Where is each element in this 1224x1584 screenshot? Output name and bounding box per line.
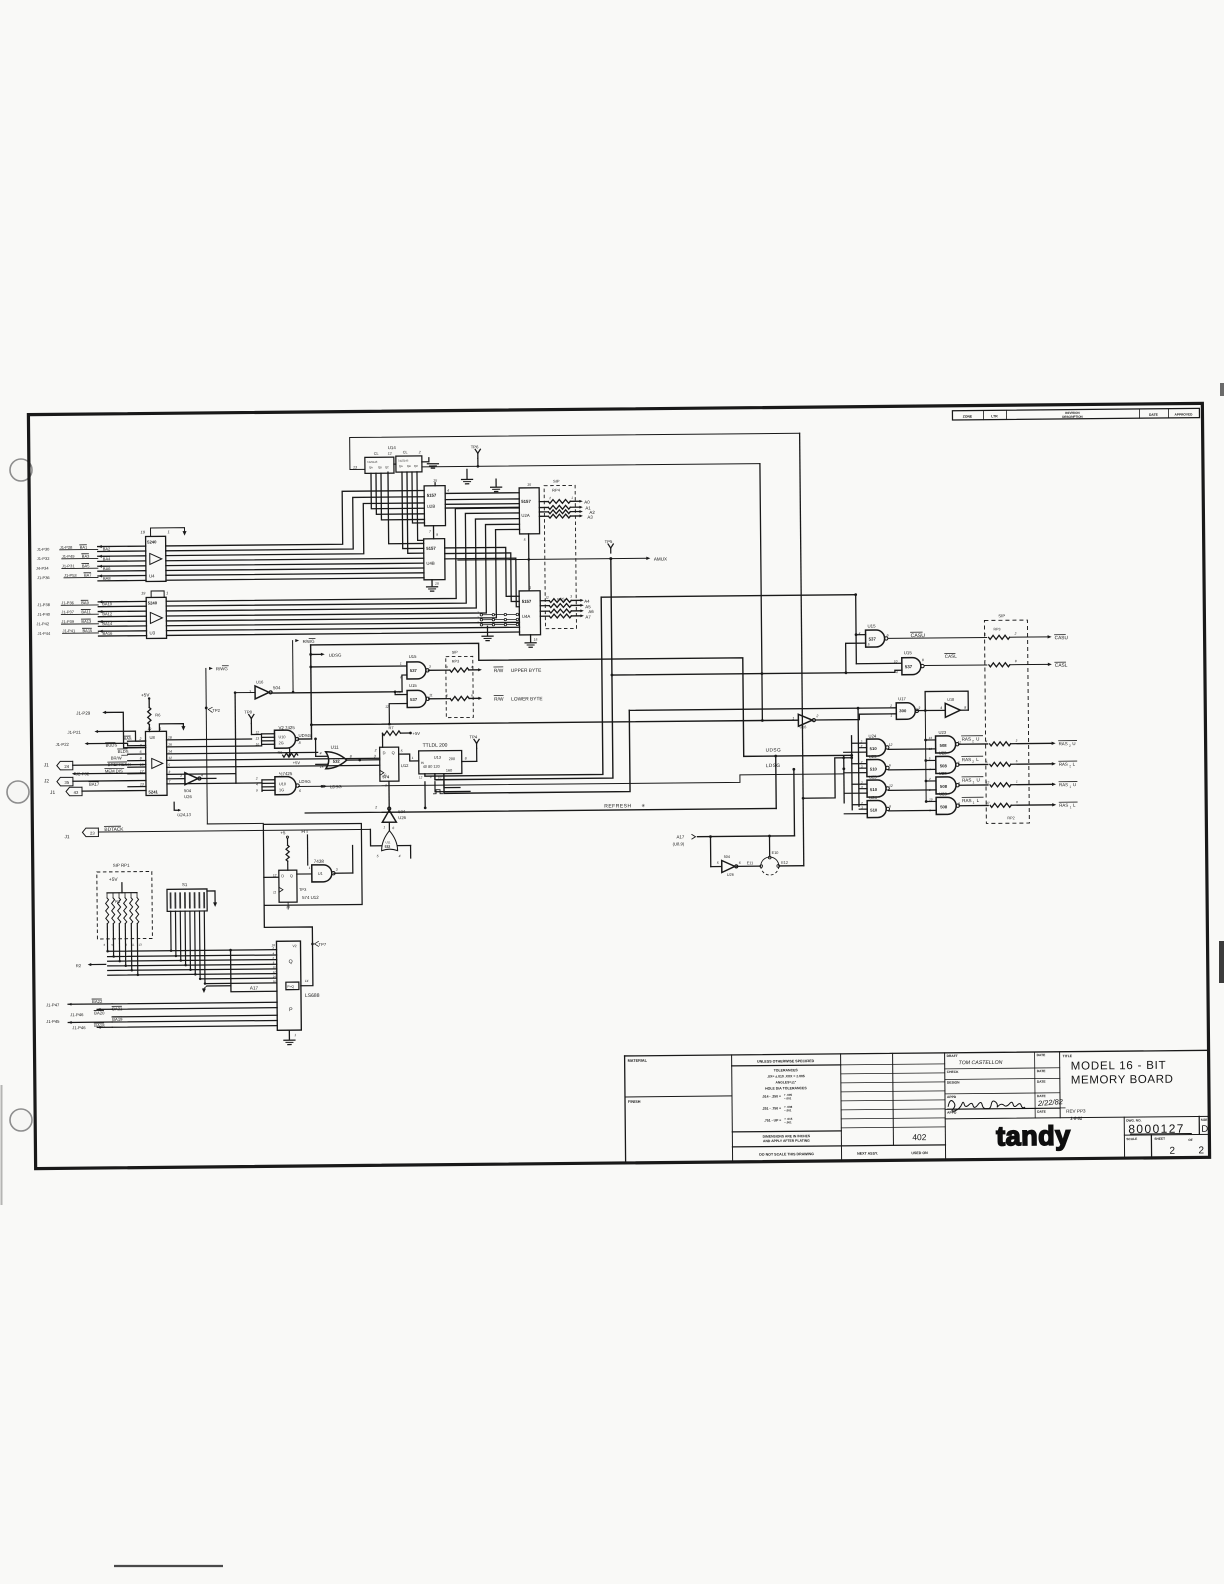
svg-text:J1-P46: J1-P46 <box>72 1025 86 1030</box>
svg-text:QD: QD <box>414 464 418 468</box>
svg-text:J1-P53: J1-P53 <box>64 573 77 578</box>
svg-text:RAS: RAS <box>1059 782 1068 787</box>
RAS output row4 <box>959 804 988 806</box>
svg-text:6: 6 <box>140 750 142 754</box>
svg-text:5157: 5157 <box>521 499 531 504</box>
U22 P input wires <box>112 1002 277 1004</box>
svg-text:E10: E10 <box>772 851 779 855</box>
S1 common arrow <box>207 891 215 902</box>
svg-text:+5V: +5V <box>412 731 420 736</box>
svg-text:AMUX: AMUX <box>654 557 667 562</box>
svg-text:8: 8 <box>964 706 966 710</box>
U4B outputs to U4A <box>445 547 519 597</box>
TP6 test point <box>477 453 479 458</box>
svg-text:E12: E12 <box>781 861 788 865</box>
svg-text:TP5: TP5 <box>605 539 613 544</box>
svg-text:J1-P46: J1-P46 <box>70 1012 84 1017</box>
svg-text:U13: U13 <box>434 755 442 760</box>
svg-text:✳: ✳ <box>641 803 645 808</box>
svg-text:2: 2 <box>1069 764 1071 768</box>
svg-text:4: 4 <box>447 489 449 493</box>
ground at U14 <box>422 461 429 463</box>
U4 input wires <box>98 545 146 547</box>
svg-text:A3: A3 <box>587 515 593 520</box>
svg-text:2G: 2G <box>279 741 284 745</box>
svg-text:P: P <box>289 1007 293 1013</box>
svg-text:2: 2 <box>1169 1146 1175 1157</box>
svg-text:U15: U15 <box>867 624 876 629</box>
svg-text:1: 1 <box>385 783 387 787</box>
svg-text:USED ON: USED ON <box>911 1151 928 1155</box>
svg-text:5: 5 <box>446 694 448 698</box>
svg-text:LOWER BYTE: LOWER BYTE <box>511 696 543 702</box>
wire y675 CAS feed <box>612 670 902 675</box>
svg-text:510: 510 <box>870 807 878 812</box>
svg-text:U1: U1 <box>318 872 323 876</box>
U8 left pin stubs <box>128 740 146 742</box>
svg-text:J1: J1 <box>64 834 69 840</box>
R/WG vertical <box>209 667 213 670</box>
svg-text:4: 4 <box>986 739 988 743</box>
svg-text:6: 6 <box>392 826 394 830</box>
svg-text:BA22: BA22 <box>92 999 103 1004</box>
svg-text:12: 12 <box>168 756 172 760</box>
svg-text:UPPER BYTE: UPPER BYTE <box>511 668 541 674</box>
svg-text:10: 10 <box>929 797 933 801</box>
svg-text:2: 2 <box>928 777 931 781</box>
ground U4A <box>530 635 532 642</box>
svg-text:U: U <box>976 737 979 742</box>
svg-text:AND APPLY AFTER PLATING: AND APPLY AFTER PLATING <box>763 1139 810 1143</box>
buffer U3 <box>146 597 166 638</box>
svg-text:SIP: SIP <box>998 613 1005 618</box>
svg-text:½7425: ½7425 <box>279 771 293 776</box>
svg-text:L: L <box>976 757 979 762</box>
svg-text:U25: U25 <box>869 775 877 780</box>
svg-text:5: 5 <box>717 861 719 865</box>
svg-text:ZONE: ZONE <box>963 415 973 419</box>
inverter U16a 504 <box>255 686 269 699</box>
svg-text:Q: Q <box>392 750 395 755</box>
inverter U26a 504 <box>167 778 185 780</box>
svg-text:TP3: TP3 <box>299 887 307 892</box>
buffer U8 <box>145 731 167 795</box>
svg-text:6: 6 <box>299 789 301 793</box>
svg-text:3: 3 <box>570 594 572 598</box>
svg-text:12: 12 <box>545 596 549 600</box>
svg-text:MATERIAL: MATERIAL <box>628 1059 648 1063</box>
svg-text:.751 - UP =: .751 - UP = <box>764 1118 781 1122</box>
svg-text:SIP: SIP <box>553 479 560 484</box>
svg-text:QB: QB <box>407 464 411 468</box>
svg-text:5: 5 <box>401 749 403 753</box>
svg-text:537: 537 <box>905 664 913 669</box>
svg-text:.XX= ±.010 .XXX = ±.005: .XX= ±.010 .XXX = ±.005 <box>767 1074 805 1078</box>
svg-text:5: 5 <box>524 538 526 542</box>
svg-text:537: 537 <box>410 697 418 702</box>
svg-text:1: 1 <box>1070 805 1072 809</box>
svg-text:V2: V2 <box>293 944 297 948</box>
svg-text:J1-P36: J1-P36 <box>61 600 74 605</box>
U17 input wire <box>629 708 896 711</box>
svg-text:11: 11 <box>958 740 962 744</box>
svg-text:2: 2 <box>255 776 258 780</box>
svg-text:J1-P49: J1-P49 <box>62 554 75 559</box>
svg-text:D: D <box>281 874 284 878</box>
svg-text:J1-P36: J1-P36 <box>37 575 50 580</box>
svg-text:J1-P32: J1-P32 <box>37 556 50 561</box>
U14 extra drops <box>412 472 424 523</box>
right edge scan mark <box>1219 941 1224 983</box>
svg-text:CASU: CASU <box>1055 635 1069 641</box>
svg-text:U26: U26 <box>184 794 192 799</box>
svg-text:2: 2 <box>860 760 863 764</box>
svg-text:6: 6 <box>889 804 891 808</box>
flipflop U12b 574 <box>279 870 297 902</box>
RP4 resistors <box>548 499 570 503</box>
R/W lower byte output <box>429 698 450 700</box>
U3 enable loop <box>151 591 164 598</box>
svg-text:2: 2 <box>972 739 974 743</box>
svg-text:BA18: BA18 <box>94 1023 105 1028</box>
svg-text:tandy: tandy <box>996 1121 1071 1152</box>
svg-text:ANGLES=±1°: ANGLES=±1° <box>776 1080 797 1084</box>
dwg no box <box>1123 1117 1125 1158</box>
svg-text:J1: J1 <box>44 762 49 768</box>
svg-text:SIP: SIP <box>452 651 459 655</box>
svg-text:BAS: BAS <box>123 736 131 741</box>
svg-text:UDSG: UDSG <box>766 747 782 753</box>
svg-text:BA20: BA20 <box>94 1010 105 1015</box>
svg-text:TTLDL 200: TTLDL 200 <box>423 743 448 749</box>
svg-text:5: 5 <box>868 643 870 647</box>
svg-text:1: 1 <box>972 780 974 784</box>
svg-text:2: 2 <box>548 496 551 500</box>
svg-text:BA19: BA19 <box>112 1017 123 1022</box>
buffer U4 <box>146 536 166 581</box>
svg-text:U23: U23 <box>938 730 946 735</box>
svg-text:12: 12 <box>419 775 423 779</box>
ground mid 2 <box>495 479 497 486</box>
svg-text:LDSG: LDSG <box>299 779 311 784</box>
svg-text:A0: A0 <box>584 500 590 505</box>
svg-text:P=Q: P=Q <box>287 985 294 989</box>
buffer U18 <box>945 703 960 717</box>
U12 Q to U13 wire <box>399 754 419 761</box>
svg-text:9: 9 <box>256 788 258 792</box>
wire U17 feed trunk <box>443 710 630 793</box>
svg-text:J1-P41: J1-P41 <box>62 628 75 633</box>
svg-text:2: 2 <box>1198 1145 1204 1156</box>
svg-text:6: 6 <box>739 861 741 865</box>
svg-text:R6: R6 <box>278 751 283 755</box>
pulse symbol <box>433 790 443 794</box>
svg-text:J2: J2 <box>44 778 49 784</box>
arbitration sub-circuit box <box>263 823 362 905</box>
svg-text:2: 2 <box>477 610 479 614</box>
svg-text:BA17: BA17 <box>89 782 100 787</box>
R/WG arrow 2 <box>295 639 299 642</box>
punch hole top <box>10 459 32 481</box>
LDSG arrow tap <box>323 785 327 788</box>
LDSG trunk wire <box>298 774 844 787</box>
svg-text:4: 4 <box>896 670 898 674</box>
U14 clock wire from line A <box>350 433 800 469</box>
svg-text:(U8,9): (U8,9) <box>673 841 685 846</box>
svg-text:5157: 5157 <box>426 546 436 551</box>
revision table <box>952 408 1199 420</box>
svg-text:U: U <box>976 778 979 783</box>
svg-text:L: L <box>1073 803 1076 808</box>
U3 rows into U4A <box>166 622 519 625</box>
E10 wire up <box>768 836 770 856</box>
ground U4B <box>431 580 433 586</box>
svg-text:12: 12 <box>255 730 259 734</box>
svg-text:1-8-82: 1-8-82 <box>1070 1116 1083 1121</box>
svg-text:508: 508 <box>940 804 948 809</box>
svg-text:U18: U18 <box>947 698 954 702</box>
U18 drop to U23 column <box>924 711 927 800</box>
wire 510 to 508 row1 <box>888 748 935 750</box>
flipflop U12 574 <box>380 747 399 781</box>
svg-text:QB: QB <box>378 465 382 469</box>
svg-text:14: 14 <box>305 979 309 983</box>
svg-text:8: 8 <box>299 741 301 745</box>
svg-text:13: 13 <box>138 943 142 947</box>
svg-text:DESCRIPTION: DESCRIPTION <box>1062 415 1083 419</box>
svg-text:160: 160 <box>446 769 452 773</box>
wire long line to U16b <box>311 720 798 725</box>
svg-text:A17: A17 <box>250 985 259 990</box>
svg-text:R6: R6 <box>155 712 161 717</box>
svg-text:5157: 5157 <box>522 599 532 604</box>
U22 output TP7 <box>264 905 313 986</box>
svg-text:300: 300 <box>899 708 907 713</box>
svg-text:7: 7 <box>168 780 170 784</box>
svg-text:1: 1 <box>400 662 402 666</box>
svg-text:1: 1 <box>1016 780 1018 784</box>
inverter U26c 504 <box>722 860 735 872</box>
svg-text:BA13: BA13 <box>81 619 92 624</box>
svg-text:504: 504 <box>724 855 730 859</box>
svg-text:J1-P22: J1-P22 <box>56 742 70 747</box>
svg-text:19: 19 <box>141 592 146 596</box>
svg-text:BA6: BA6 <box>103 566 111 571</box>
wire 510 to 508 row4 <box>889 809 936 811</box>
comparator U22 LS688 <box>276 941 301 1030</box>
punch hole bottom <box>10 1109 32 1131</box>
title block outline <box>625 1050 1209 1056</box>
U8 mid output wires <box>167 738 252 741</box>
svg-text:510: 510 <box>870 766 878 771</box>
svg-text:R2: R2 <box>76 963 82 968</box>
svg-text:43: 43 <box>74 790 79 795</box>
svg-text:8: 8 <box>350 755 352 759</box>
svg-text:15: 15 <box>527 483 531 487</box>
svg-text:LTR: LTR <box>991 414 998 418</box>
svg-text:U10: U10 <box>279 782 286 786</box>
ground E cluster <box>486 626 488 635</box>
svg-text:18: 18 <box>168 736 172 740</box>
svg-text:3: 3 <box>1016 739 1018 743</box>
resistor pack RP2/RP3 tall dashed box <box>984 620 1029 823</box>
svg-text:J1-P29: J1-P29 <box>76 711 91 716</box>
svg-text:UNLESS OTHERWISE SPECIFIED: UNLESS OTHERWISE SPECIFIED <box>757 1059 815 1064</box>
svg-text:U4B: U4B <box>426 561 435 566</box>
svg-text:DATE: DATE <box>1037 1069 1047 1073</box>
svg-text:A4: A4 <box>584 599 590 604</box>
mux U4B <box>424 539 445 580</box>
svg-text:BA5: BA5 <box>82 563 90 568</box>
wire 510 to 508 row3 <box>889 789 936 791</box>
svg-text:504: 504 <box>184 788 192 793</box>
svg-text:R/W: R/W <box>494 668 504 674</box>
svg-text:U23: U23 <box>939 750 947 755</box>
svg-text:REFRESH: REFRESH <box>604 803 631 809</box>
svg-text:BR/W: BR/W <box>111 755 122 760</box>
svg-text:J1-P45: J1-P45 <box>46 1019 60 1024</box>
svg-text:Q: Q <box>289 959 293 965</box>
svg-text:RAS: RAS <box>962 798 972 803</box>
svg-text:5157: 5157 <box>427 493 437 498</box>
svg-text:200: 200 <box>449 757 455 761</box>
svg-text:DATE: DATE <box>1149 413 1159 417</box>
svg-text:U15: U15 <box>409 683 417 688</box>
E12 wire to line A drop <box>780 865 804 867</box>
svg-text:Q: Q <box>290 874 293 878</box>
TP5 test point <box>610 548 612 553</box>
svg-text:LDSG: LDSG <box>330 784 342 789</box>
wire line B <box>422 464 760 467</box>
U14 drops to U4B <box>388 472 424 544</box>
svg-text:CL: CL <box>374 452 379 456</box>
svg-text:HOLE DIA TOLERANCES: HOLE DIA TOLERANCES <box>765 1086 807 1090</box>
svg-text:3: 3 <box>103 943 105 947</box>
svg-text:U2B: U2B <box>427 504 436 509</box>
svg-text:+5V: +5V <box>293 760 301 765</box>
U3 label tier wires <box>61 604 98 606</box>
svg-text:508: 508 <box>940 763 948 768</box>
svg-text:OF: OF <box>1188 1138 1193 1142</box>
wire AMUX feed trunk <box>433 559 613 780</box>
svg-text:L: L <box>977 798 980 803</box>
svg-text:U2A: U2A <box>521 513 530 518</box>
mux U4A <box>519 591 540 635</box>
svg-text:RAS: RAS <box>962 757 972 762</box>
svg-text:RP3: RP3 <box>993 627 1000 631</box>
U15b feeds <box>856 662 901 664</box>
svg-text:IN: IN <box>421 761 424 765</box>
svg-text:40 80 120: 40 80 120 <box>423 765 440 769</box>
svg-text:APPD: APPD <box>947 1095 957 1099</box>
svg-text:U10: U10 <box>278 735 285 739</box>
svg-text:U26: U26 <box>398 815 406 820</box>
svg-text:6: 6 <box>471 693 473 697</box>
UDSG arrow upper <box>321 653 325 656</box>
svg-text:1: 1 <box>571 496 573 500</box>
svg-text:.014 - .250 =: .014 - .250 = <box>762 1094 781 1098</box>
svg-text:SIZE: SIZE <box>1201 1118 1208 1122</box>
svg-text:J1-P28: J1-P28 <box>60 545 73 550</box>
svg-text:RP2: RP2 <box>1007 816 1014 820</box>
svg-text:FINISH: FINISH <box>628 1100 641 1104</box>
svg-text:12: 12 <box>388 452 392 456</box>
svg-text:510: 510 <box>870 746 878 751</box>
punch hole middle <box>7 781 29 803</box>
svg-text:3: 3 <box>958 781 960 785</box>
title block next assy / used on columns <box>892 1053 895 1145</box>
wire U16b output to U17 <box>815 714 896 720</box>
svg-text:UDSG: UDSG <box>329 653 342 658</box>
svg-text:5: 5 <box>986 760 988 764</box>
svg-text:5240: 5240 <box>148 600 158 605</box>
U3 input wires <box>98 600 146 602</box>
svg-text:1: 1 <box>309 866 311 870</box>
svg-text:17: 17 <box>986 801 990 805</box>
U8 enable arrow <box>159 724 183 732</box>
resistor pack RP4/RP5 dashed box <box>544 485 576 628</box>
svg-text:A17: A17 <box>676 834 684 839</box>
svg-text:U: U <box>1073 782 1076 787</box>
U17 output loop and U18 buffer <box>915 710 925 712</box>
svg-text:U4: U4 <box>149 573 155 578</box>
wire line A top <box>800 433 804 865</box>
svg-text:UDSG: UDSG <box>298 733 311 738</box>
svg-text:TP4: TP4 <box>469 734 477 739</box>
svg-text:BA4: BA4 <box>103 556 111 561</box>
R8 pulldown at U10 <box>289 748 291 755</box>
svg-text:2: 2 <box>418 450 421 454</box>
svg-text:J1-P21: J1-P21 <box>67 730 81 735</box>
bus wires to U22 <box>108 950 277 952</box>
svg-text:8: 8 <box>465 756 467 760</box>
U4A outputs to RP5 <box>540 600 549 602</box>
svg-text:2: 2 <box>139 737 142 741</box>
svg-text:A7: A7 <box>585 614 591 619</box>
mux U2B <box>424 486 445 526</box>
svg-text:16: 16 <box>168 743 172 747</box>
svg-text:1: 1 <box>973 801 975 805</box>
svg-text:19: 19 <box>147 727 151 731</box>
svg-text:537: 537 <box>869 637 877 642</box>
svg-text:U: U <box>1072 741 1075 746</box>
svg-text:TP7: TP7 <box>318 942 326 947</box>
right edge scan tick <box>1220 383 1224 396</box>
svg-text:CASL: CASL <box>945 654 957 659</box>
svg-text:J1-P38: J1-P38 <box>37 602 50 607</box>
svg-text:+5: +5 <box>280 830 286 835</box>
svg-text:74LS143: 74LS143 <box>367 460 378 464</box>
svg-text:A6: A6 <box>588 609 594 614</box>
svg-text:402: 402 <box>912 1132 927 1142</box>
svg-text:2: 2 <box>1069 744 1071 748</box>
svg-text:BA11: BA11 <box>81 609 91 614</box>
svg-text:U4A: U4A <box>522 614 531 619</box>
svg-text:J1-P40: J1-P40 <box>37 612 50 617</box>
svg-text:508: 508 <box>940 784 948 789</box>
U2A outputs to RP4 <box>539 501 548 503</box>
svg-text:+5V: +5V <box>141 692 150 697</box>
svg-text:12: 12 <box>385 705 389 709</box>
svg-text:508: 508 <box>940 743 948 748</box>
U14 drops to U2B <box>371 473 424 509</box>
svg-text:BA2: BA2 <box>103 546 111 551</box>
feeds to U15c/d <box>311 665 407 668</box>
svg-text:BA12: BA12 <box>102 611 113 616</box>
svg-text:537: 537 <box>410 668 418 673</box>
svg-text:574 U12: 574 U12 <box>302 895 319 900</box>
svg-text:BA8: BA8 <box>103 576 111 581</box>
